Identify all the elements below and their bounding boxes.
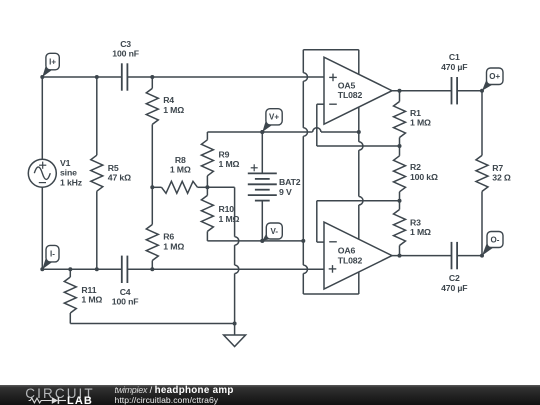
- flag O-: [480, 232, 503, 258]
- wire OA6 bottom power rect: [303, 293, 359, 295]
- label C1: [441, 52, 467, 72]
- resistor R7: [476, 155, 488, 191]
- svg-text:100 nF: 100 nF: [112, 297, 139, 307]
- flag I-: [40, 245, 59, 271]
- wire left power rail seg3: [302, 136, 304, 265]
- footer bar: [0, 385, 540, 405]
- wire OA6 feedback: [317, 200, 400, 202]
- svg-text:470 µF: 470 µF: [441, 62, 467, 72]
- wire R8 right lead: [198, 186, 208, 188]
- svg-text:470 µF: 470 µF: [441, 283, 467, 293]
- node R1-R2 junction: [398, 144, 402, 148]
- wire mid power seg2: [358, 150, 360, 196]
- wire R5 bottom lead: [96, 191, 98, 269]
- wire R8 left lead: [152, 186, 161, 188]
- svg-text:O-: O-: [491, 235, 500, 244]
- svg-text:V+: V+: [269, 113, 279, 122]
- node ground junction: [233, 322, 237, 326]
- hop left rail over top rail: [303, 73, 307, 81]
- svg-text:V1: V1: [60, 158, 71, 168]
- wire left power rail seg2: [302, 81, 304, 128]
- capacitor C2: [452, 242, 458, 269]
- svg-text:9 V: 9 V: [279, 187, 292, 197]
- svg-text:OA5: OA5: [338, 80, 356, 90]
- wire battery top lead: [261, 132, 263, 173]
- label C2: [441, 273, 467, 293]
- label C3: [112, 39, 139, 59]
- wire R10 top lead: [206, 187, 208, 195]
- node R6 bottom junction: [150, 267, 154, 271]
- wire R2 bottom lead: [399, 192, 401, 201]
- svg-text:O+: O+: [489, 72, 500, 81]
- svg-text:1 MΩ: 1 MΩ: [170, 165, 191, 175]
- svg-text:C1: C1: [449, 52, 460, 62]
- node R1 top junction: [398, 89, 402, 93]
- wire R6 bottom lead: [151, 261, 153, 270]
- wire V1 bottom lead: [41, 187, 43, 269]
- wire R7 top lead: [481, 91, 483, 156]
- footer line 1: [115, 385, 234, 396]
- flag V+: [260, 109, 282, 134]
- flag O+: [480, 68, 503, 93]
- svg-text:C3: C3: [120, 39, 131, 49]
- svg-text:32 Ω: 32 Ω: [492, 173, 511, 183]
- node R4 top junction: [150, 75, 154, 79]
- svg-text:R2: R2: [410, 162, 421, 172]
- wire R9 top lead: [206, 132, 208, 140]
- svg-text:R8: R8: [175, 155, 186, 165]
- wire R5 top lead: [96, 77, 98, 155]
- node battery bottom junction: [260, 239, 264, 243]
- label OA5: [338, 80, 363, 100]
- wire OA5 Vminus stub: [358, 50, 360, 75]
- hop left rail over I- rail: [303, 265, 307, 273]
- label OA6: [338, 246, 363, 266]
- resistor R11: [64, 277, 76, 313]
- svg-text:1 MΩ: 1 MΩ: [163, 241, 184, 251]
- svg-text:I-: I-: [50, 249, 55, 258]
- svg-text:V-: V-: [271, 227, 279, 236]
- svg-text:BAT2: BAT2: [279, 177, 301, 187]
- battery plus marker: [251, 164, 258, 171]
- node I+ junction: [95, 75, 99, 79]
- wire OA5 output: [392, 90, 452, 92]
- resistor R3: [394, 210, 406, 246]
- svg-text:R3: R3: [410, 218, 421, 228]
- svg-text:1 MΩ: 1 MΩ: [163, 105, 184, 115]
- svg-text:OA6: OA6: [338, 246, 356, 256]
- node V+ rail to power stub: [357, 130, 361, 134]
- wire left power rail seg4: [302, 274, 304, 295]
- source V1 body: [28, 159, 56, 187]
- label R8: [170, 155, 191, 175]
- svg-text:1 MΩ: 1 MΩ: [219, 159, 240, 169]
- svg-text:1 MΩ: 1 MΩ: [410, 227, 431, 237]
- svg-text:1 kHz: 1 kHz: [60, 177, 83, 187]
- node R3 bottom junction: [398, 254, 402, 258]
- wire R4-R6 link: [151, 124, 153, 224]
- label R11: [81, 285, 102, 305]
- resistor R10: [201, 195, 213, 231]
- wire left power rail seg1: [302, 50, 304, 73]
- label R5: [108, 163, 131, 183]
- op-amp OA5 plus input marker: [329, 74, 337, 82]
- node R5 bottom junction: [95, 267, 99, 271]
- wire V1 top lead: [41, 77, 43, 159]
- hop mid power over OA6 feedback: [359, 197, 363, 205]
- svg-text:47 kΩ: 47 kΩ: [108, 173, 131, 183]
- svg-text:C4: C4: [120, 287, 131, 297]
- wire mid power seg1: [358, 107, 360, 142]
- svg-text:TL082: TL082: [338, 90, 363, 100]
- node V- rail to left power rail: [301, 239, 305, 243]
- wire OA5 feedback: [317, 145, 400, 147]
- wire R3 top lead: [399, 201, 401, 210]
- ground symbol: [224, 335, 246, 347]
- wire OA6 -in stub: [317, 241, 324, 243]
- label R6: [163, 232, 184, 252]
- svg-text:R9: R9: [219, 149, 230, 159]
- resistor R5: [91, 155, 103, 191]
- svg-text:100 nF: 100 nF: [112, 49, 139, 59]
- label R10: [219, 204, 240, 224]
- hop mid power over OA5 feedback: [359, 142, 363, 150]
- wire OA5 -in down: [316, 104, 318, 146]
- label R3: [410, 218, 431, 238]
- svg-text:R7: R7: [492, 163, 503, 173]
- node battery top junction: [260, 130, 264, 134]
- hop V+ rail over -in wire: [313, 128, 321, 132]
- wire divider-to-ground middle: [234, 245, 236, 265]
- wire ground rail: [70, 323, 234, 325]
- svg-text:1 MΩ: 1 MΩ: [219, 214, 240, 224]
- svg-text:TL082: TL082: [338, 255, 363, 265]
- svg-text:1 MΩ: 1 MΩ: [81, 295, 102, 305]
- op-amp OA6 body: [324, 222, 392, 289]
- wire mid power seg3: [358, 205, 360, 239]
- label R7: [492, 163, 511, 183]
- resistor R2: [394, 156, 406, 192]
- footer line 2: [115, 395, 219, 405]
- wire OA6 Vminus stub: [358, 272, 360, 294]
- wire R1 top lead: [399, 91, 401, 102]
- flag I+: [40, 53, 59, 79]
- label C4: [112, 287, 139, 307]
- hop left rail over V+ rail: [303, 128, 307, 136]
- wire R10 bottom lead: [206, 231, 208, 241]
- node R11 top junction: [68, 267, 72, 271]
- wire R1 bottom lead: [399, 138, 401, 147]
- hop over V- rail: [235, 237, 239, 245]
- node R2-R3 junction: [398, 199, 402, 203]
- CircuitLab logo word: [25, 386, 94, 401]
- flag V-: [260, 223, 282, 243]
- capacitor C1: [452, 77, 458, 104]
- wire C1 to O+: [457, 90, 482, 92]
- wire R11 top lead: [69, 269, 71, 277]
- svg-text:C2: C2: [449, 273, 460, 283]
- op-amp OA6 minus input marker: [329, 241, 337, 243]
- wire divider-to-ground lower: [234, 274, 236, 324]
- wire divider-to-ground upper: [234, 187, 236, 236]
- LAB logo text: [67, 395, 93, 405]
- source V1 minus marker: [39, 182, 46, 184]
- wire R2 top lead: [399, 146, 401, 156]
- svg-text:R6: R6: [163, 232, 174, 242]
- wire R4 top lead: [151, 77, 153, 88]
- CircuitLab logo squiggle (resistor + diode): [28, 396, 66, 405]
- resistor R1: [394, 102, 406, 138]
- label BAT2: [279, 177, 301, 197]
- label R1: [410, 108, 431, 128]
- wire V- rail: [207, 240, 303, 242]
- wire R7 bottom lead: [481, 191, 483, 255]
- capacitor C4: [122, 256, 128, 283]
- label V1: [60, 158, 83, 187]
- resistor R9: [201, 140, 213, 176]
- hop over I- rail: [235, 265, 239, 273]
- node R8-R9-R10 junction: [205, 185, 209, 189]
- svg-text:R1: R1: [410, 108, 421, 118]
- wire R9 bottom lead: [206, 176, 208, 188]
- ground stub: [234, 324, 236, 336]
- resistor R6: [146, 225, 158, 261]
- svg-text:R4: R4: [163, 95, 174, 105]
- op-amp OA5 body: [324, 57, 392, 124]
- node R8 left junction: [150, 185, 154, 189]
- svg-text:R11: R11: [81, 285, 96, 295]
- op-amp OA6 plus input marker: [329, 265, 337, 273]
- svg-text:R10: R10: [219, 204, 235, 214]
- resistor R8: [162, 181, 198, 193]
- wire top input rail (I+ to C3): [42, 76, 122, 78]
- resistor R4: [146, 88, 158, 124]
- wire OA5 top power rect: [303, 49, 359, 51]
- wire R11 bottom lead: [69, 313, 71, 324]
- label R9: [219, 149, 240, 169]
- wire C2 to O-: [457, 255, 482, 257]
- wire top input rail (C3 to OA5 +in): [127, 76, 324, 78]
- capacitor C3: [122, 63, 128, 90]
- wire I- rail left: [42, 268, 122, 270]
- wire OA6 output: [392, 255, 452, 257]
- svg-text:100 kΩ: 100 kΩ: [410, 172, 438, 182]
- wire OA5 -in stub: [317, 103, 324, 105]
- source V1 plus marker: [39, 162, 46, 169]
- label R2: [410, 162, 438, 182]
- label R4: [163, 95, 184, 115]
- svg-text:1 MΩ: 1 MΩ: [410, 118, 431, 128]
- svg-text:sine: sine: [60, 168, 77, 178]
- wire V+ rail left: [207, 131, 312, 133]
- wire battery bottom lead: [261, 201, 263, 241]
- battery BAT2 plates: [248, 173, 277, 200]
- wire I- rail right: [127, 268, 324, 270]
- svg-text:I+: I+: [49, 57, 56, 66]
- wire V+ rail right: [321, 131, 359, 133]
- wire R3 bottom lead: [399, 246, 401, 256]
- wire OA6 -in up: [316, 201, 318, 242]
- wire divider mid jog: [207, 186, 234, 188]
- svg-text:R5: R5: [108, 163, 119, 173]
- op-amp OA5 minus input marker: [329, 103, 337, 105]
